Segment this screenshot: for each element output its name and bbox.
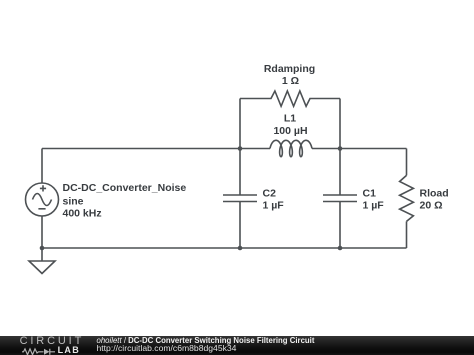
svg-text:L1: L1 bbox=[284, 113, 296, 125]
footer url line bbox=[97, 344, 237, 353]
svg-text:400 kHz: 400 kHz bbox=[63, 207, 102, 219]
svg-text:Rload: Rload bbox=[420, 188, 449, 200]
svg-text:C2: C2 bbox=[263, 188, 277, 200]
svg-text:C1: C1 bbox=[363, 188, 377, 200]
wire: R-L loop right vertical bbox=[339, 99, 341, 149]
capacitor C2 plates bbox=[223, 195, 257, 202]
footer bar bbox=[0, 336, 474, 355]
wire: Rload bottom lead bbox=[406, 221, 408, 248]
voltage source V1 circle bbox=[26, 183, 59, 216]
voltage source plus sign bbox=[40, 185, 46, 191]
logo diode bbox=[44, 348, 50, 354]
resistor Rload bbox=[400, 175, 414, 221]
capacitor C1 bottom lead bbox=[339, 202, 341, 249]
svg-text:Rdamping: Rdamping bbox=[264, 63, 315, 75]
footer credit line bbox=[97, 337, 315, 345]
logo word CIRCUIT bbox=[20, 336, 85, 347]
wire: top rail left segment bbox=[42, 148, 270, 150]
wire: ground stub bbox=[41, 248, 43, 261]
svg-text:1 µF: 1 µF bbox=[363, 200, 385, 212]
junction node loop right / C1 top bbox=[338, 146, 343, 151]
voltage source sine waveform bbox=[33, 194, 52, 206]
ground symbol bbox=[29, 261, 55, 274]
svg-text:DC-DC_Converter_Noise: DC-DC_Converter_Noise bbox=[63, 182, 187, 194]
capacitor C1 plates bbox=[323, 195, 357, 202]
junction node at source bottom bbox=[40, 246, 45, 251]
wire: source bottom vertical bbox=[41, 216, 43, 248]
junction node loop left / C2 top bbox=[238, 146, 243, 151]
resistor Rdamping bbox=[240, 91, 340, 106]
capacitor C1 top lead bbox=[339, 149, 341, 196]
logo resistor zigzag + diode + LAB bbox=[22, 347, 62, 355]
wire: Rload top lead bbox=[406, 149, 408, 176]
wire: source top vertical bbox=[41, 149, 43, 184]
capacitor C2 top lead bbox=[239, 149, 241, 196]
junction node C1 bottom bbox=[338, 246, 343, 251]
svg-text:1 Ω: 1 Ω bbox=[282, 75, 299, 87]
junction node C2 bottom bbox=[238, 246, 243, 251]
wire: top rail right segment bbox=[312, 148, 407, 150]
svg-text:sine: sine bbox=[63, 196, 84, 208]
logo resistor zigzag bbox=[22, 348, 44, 354]
voltage source minus sign bbox=[38, 208, 45, 210]
svg-text:100 µH: 100 µH bbox=[273, 125, 307, 137]
logo word LAB bbox=[58, 346, 80, 355]
svg-text:1 µF: 1 µF bbox=[263, 200, 285, 212]
svg-text:20 Ω: 20 Ω bbox=[420, 200, 443, 212]
wire: R-L loop left vertical bbox=[239, 99, 241, 149]
capacitor C2 bottom lead bbox=[239, 202, 241, 249]
wire: bottom rail bbox=[42, 247, 407, 249]
inductor L1 bbox=[270, 140, 312, 156]
